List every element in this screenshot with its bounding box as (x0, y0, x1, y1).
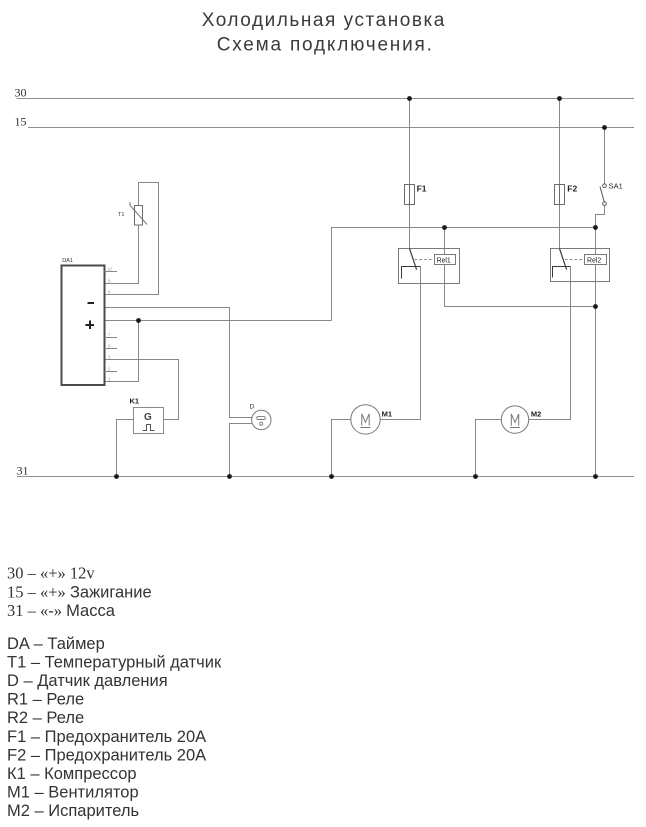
svg-text:M1 – Вентилятор: M1 – Вентилятор (7, 784, 139, 802)
svg-text:15: 15 (15, 114, 27, 128)
svg-text:Rel2: Rel2 (587, 258, 601, 265)
svg-text:T1: T1 (118, 212, 124, 218)
svg-text:M1: M1 (382, 410, 392, 419)
svg-text:30: 30 (15, 86, 27, 100)
svg-text:6: 6 (108, 343, 111, 348)
svg-text:K1: K1 (130, 397, 140, 406)
svg-text:R2 – Реле: R2 – Реле (7, 709, 84, 727)
svg-text:G: G (144, 412, 152, 423)
svg-text:8: 8 (108, 289, 111, 294)
svg-text:D: D (250, 404, 255, 411)
svg-text:T1 – Температурный датчик: T1 – Температурный датчик (7, 653, 222, 671)
svg-text:15 – «+» Зажигание: 15 – «+» Зажигание (7, 582, 152, 601)
svg-text:F1: F1 (417, 183, 427, 193)
svg-text:9: 9 (108, 278, 111, 283)
svg-text:31: 31 (17, 464, 29, 478)
svg-text:DA – Таймер: DA – Таймер (7, 635, 105, 653)
svg-text:Холодильная установка: Холодильная установка (202, 10, 446, 31)
svg-text:7: 7 (108, 333, 111, 338)
svg-text:Rel1: Rel1 (437, 258, 451, 265)
svg-text:M2: M2 (531, 410, 541, 419)
svg-text:M2 – Испаритель: M2 – Испаритель (7, 802, 139, 820)
svg-text:31 – «-» Масса: 31 – «-» Масса (7, 601, 116, 620)
svg-text:Схема подключения.: Схема подключения. (217, 35, 434, 56)
svg-text:F1 – Предохранитель 20А: F1 – Предохранитель 20А (7, 728, 206, 746)
svg-text:1: 1 (108, 376, 111, 381)
svg-text:R1 – Реле: R1 – Реле (7, 691, 84, 709)
svg-text:D – Датчик давления: D – Датчик давления (7, 672, 168, 690)
svg-text:К1 – Компрессор: К1 – Компрессор (7, 765, 137, 783)
svg-text:30 – «+» 12v: 30 – «+» 12v (7, 564, 95, 583)
svg-text:3: 3 (108, 354, 111, 359)
svg-text:10: 10 (107, 267, 112, 272)
svg-text:F2 – Предохранитель 20А: F2 – Предохранитель 20А (7, 746, 206, 764)
svg-text:DA1: DA1 (62, 258, 73, 264)
svg-text:2: 2 (108, 366, 111, 371)
svg-text:F2: F2 (567, 183, 577, 193)
svg-text:SA1: SA1 (609, 181, 623, 190)
